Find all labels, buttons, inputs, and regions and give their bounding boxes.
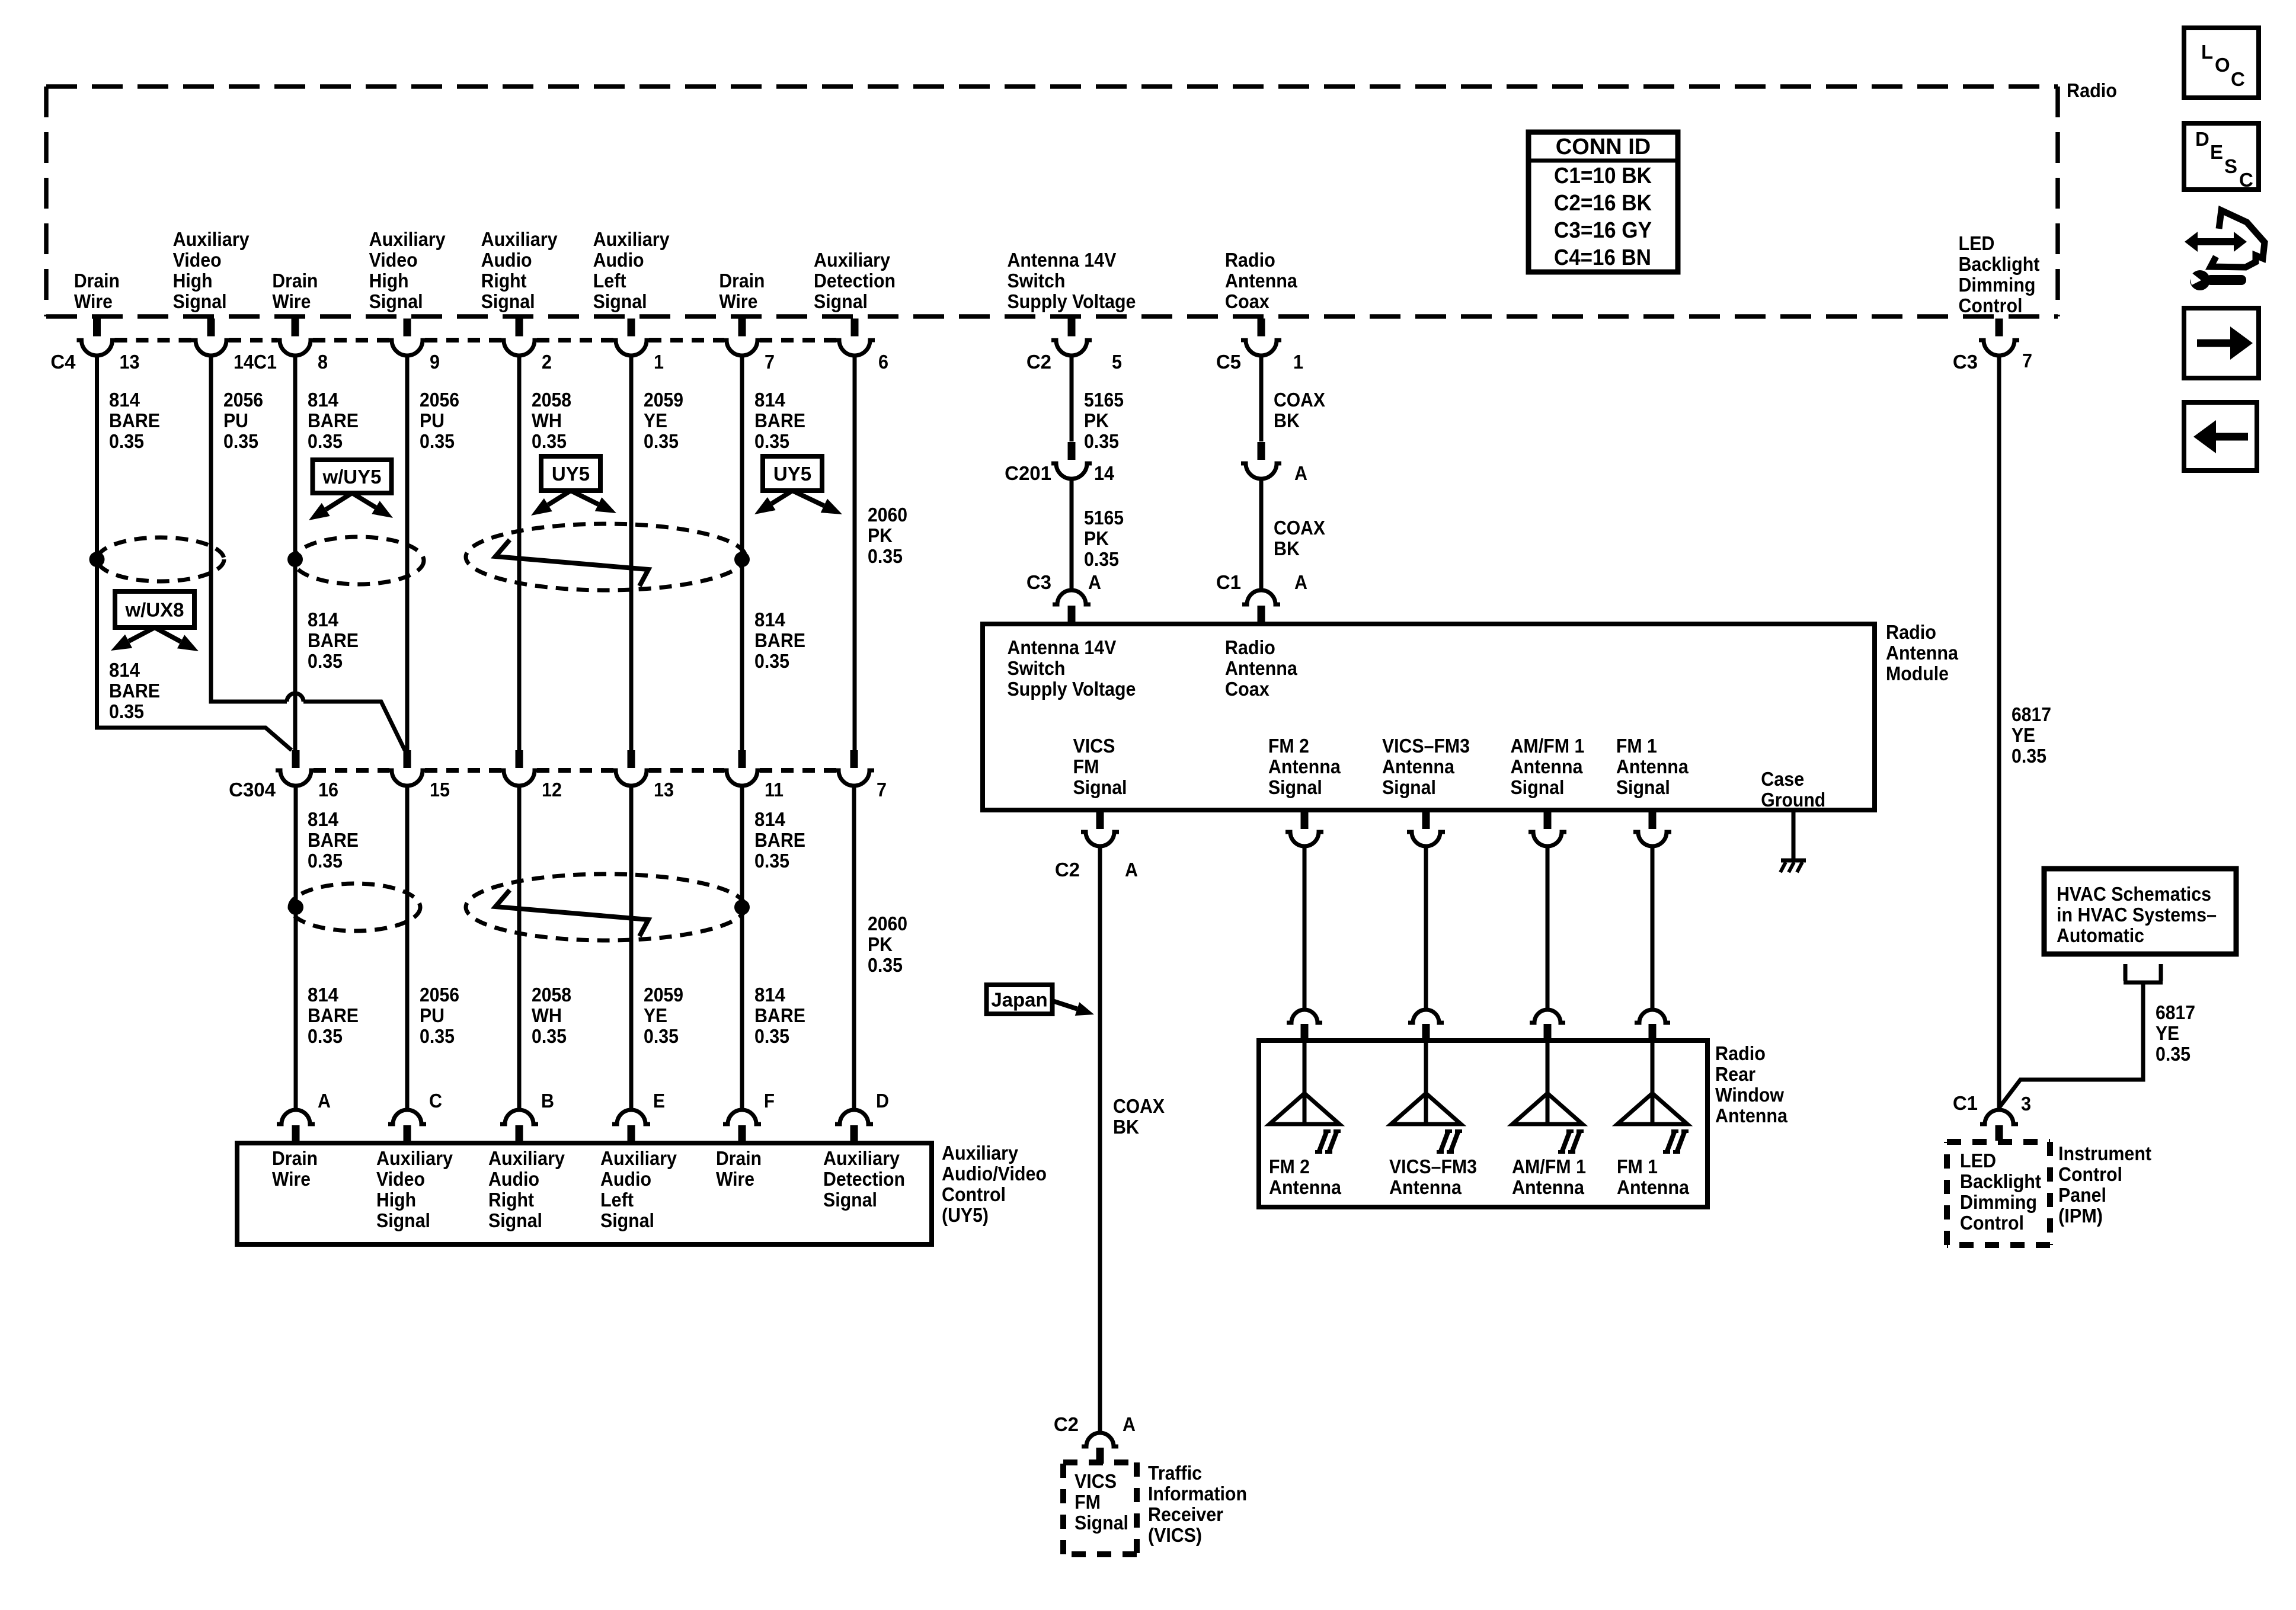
svg-text:VICS: VICS <box>1073 735 1115 757</box>
svg-text:YE: YE <box>2012 724 2035 746</box>
svg-text:Radio: Radio <box>1225 636 1275 658</box>
component name: Radio Antenna Module <box>1886 621 1959 684</box>
svg-text:Antenna: Antenna <box>1510 756 1583 777</box>
svg-text:F: F <box>764 1090 775 1112</box>
svg-text:Auxiliary: Auxiliary <box>814 249 891 271</box>
component name: Radio Rear Window Antenna <box>1715 1042 1788 1126</box>
svg-text:Signal: Signal <box>600 1209 654 1231</box>
svg-text:D: D <box>2195 128 2209 150</box>
svg-text:1: 1 <box>1293 351 1303 373</box>
svg-text:Auxiliary: Auxiliary <box>173 228 250 250</box>
sidebar DESC icon box <box>2184 123 2259 191</box>
svg-text:FM 1: FM 1 <box>1617 1156 1658 1177</box>
svg-text:C1: C1 <box>1953 1092 1978 1114</box>
pin 5 name: Antenna 14V Switch Supply Voltage <box>1007 249 1136 312</box>
svg-text:814: 814 <box>308 984 339 1006</box>
svg-text:814: 814 <box>754 609 786 630</box>
connector C304 cavity 13 <box>611 750 651 786</box>
svg-text:0.35: 0.35 <box>644 430 679 452</box>
svg-text:C3=16 GY: C3=16 GY <box>1554 218 1652 243</box>
svg-text:BK: BK <box>1274 409 1300 431</box>
svg-text:O: O <box>2215 54 2230 76</box>
Aux box pin D name <box>823 1147 905 1211</box>
svg-text:Drain: Drain <box>719 270 765 292</box>
case ground wire <box>1792 812 1796 860</box>
svg-text:13: 13 <box>654 779 674 801</box>
svg-text:2056: 2056 <box>420 984 459 1006</box>
component name: Auxiliary Audio/Video Control (UY5) <box>942 1142 1047 1226</box>
svg-text:0.35: 0.35 <box>532 430 567 452</box>
inline connector C201 pin 14 <box>1051 442 1092 479</box>
connector cavity pin F (Auxiliary A/V Control) <box>723 1110 761 1142</box>
wire value label 814 BARE 0.35 (C304 16 upper) <box>308 808 359 872</box>
wire 6817 YE (radio C3-7 to IPM C1-3) <box>1997 356 2001 1109</box>
svg-text:6817: 6817 <box>2012 703 2051 725</box>
pin 7 name: LED Backlight Dimming Control <box>1958 232 2039 316</box>
svg-text:Backlight: Backlight <box>1958 253 2039 275</box>
Radio component dashed outline box <box>46 87 2058 316</box>
svg-text:Control: Control <box>1958 295 2022 316</box>
wire 814 BARE drain (pin 8 to C304 pin 16) <box>293 356 298 750</box>
antenna break marks (AM/FM 1) <box>1558 1131 1584 1153</box>
connector row dotted line (C4/C1) <box>115 338 837 343</box>
svg-text:Right: Right <box>481 270 527 292</box>
svg-text:BARE: BARE <box>754 829 805 851</box>
junction dot (C304 11 drain) <box>734 900 750 915</box>
svg-text:0.35: 0.35 <box>754 430 789 452</box>
wire 2058 WH (pin 2 to C304 pin 12) <box>517 356 522 750</box>
rear window antenna entry connector <box>1635 1010 1670 1041</box>
twisted-pair ellipse (pins 13/14) <box>97 537 224 581</box>
connector cavity pin 13 <box>77 319 117 356</box>
svg-text:Audio: Audio <box>600 1168 651 1190</box>
svg-text:0.35: 0.35 <box>109 700 144 722</box>
pin 6 name: Auxiliary Detection Signal <box>814 249 896 312</box>
svg-text:Switch: Switch <box>1007 657 1065 679</box>
svg-text:Automatic: Automatic <box>2057 924 2144 946</box>
svg-text:5165: 5165 <box>1084 507 1124 529</box>
wire 2060 PK (pin 6 to C304 pin 7) <box>853 356 857 750</box>
antenna coax wire x=2406 <box>1424 846 1428 1010</box>
module pin name: AM/FM 1 Antenna Signal <box>1510 735 1584 798</box>
svg-text:S: S <box>2224 155 2237 177</box>
svg-text:814: 814 <box>754 984 786 1006</box>
svg-text:Auxiliary: Auxiliary <box>488 1147 565 1169</box>
module pin name: Case Ground <box>1761 768 1825 811</box>
svg-text:Window: Window <box>1715 1084 1784 1106</box>
antenna label FM 1 <box>1617 1156 1690 1198</box>
component name: Traffic Information Receiver (VICS) <box>1148 1462 1247 1546</box>
pin 8 name: Drain Wire <box>272 270 318 312</box>
svg-text:0.35: 0.35 <box>754 650 789 672</box>
svg-text:Supply Voltage: Supply Voltage <box>1007 678 1136 700</box>
svg-text:814: 814 <box>109 389 140 411</box>
svg-text:A: A <box>318 1090 331 1112</box>
wire 2059 YE (pin 1 to C304 pin 13) <box>629 356 634 750</box>
svg-text:Antenna: Antenna <box>1225 657 1298 679</box>
svg-text:12: 12 <box>542 779 562 801</box>
Auxiliary Audio/Video Control (UY5) component box <box>237 1143 932 1244</box>
svg-text:5: 5 <box>1112 351 1122 373</box>
wire value label COAX BK (lower) <box>1274 517 1325 559</box>
svg-text:Radio: Radio <box>1225 249 1275 271</box>
svg-text:BK: BK <box>1274 537 1300 559</box>
svg-text:2056: 2056 <box>223 389 263 411</box>
pin 2 name: Auxiliary Audio Right Signal <box>481 228 558 312</box>
svg-text:2060: 2060 <box>868 504 907 526</box>
chassis ground symbol <box>1780 860 1806 872</box>
connector C304 cavity 12 <box>499 750 539 786</box>
wire value label 2056 PU 0.35 (pin 14) <box>223 389 263 452</box>
connector C304 dotted line <box>314 768 836 773</box>
svg-text:11: 11 <box>765 779 784 801</box>
svg-text:7: 7 <box>877 779 887 801</box>
connector cavity pin B (Auxiliary A/V Control) <box>500 1110 538 1142</box>
svg-text:AM/FM 1: AM/FM 1 <box>1510 735 1584 757</box>
module output connector (AM/FM 1) <box>1528 812 1566 846</box>
svg-text:Signal: Signal <box>1510 776 1564 798</box>
antenna break marks (VICS–FM3) <box>1437 1131 1462 1153</box>
svg-text:Control: Control <box>942 1183 1006 1205</box>
svg-text:C2=16 BK: C2=16 BK <box>1554 191 1652 216</box>
svg-text:2: 2 <box>542 351 552 373</box>
svg-text:0.35: 0.35 <box>644 1025 679 1047</box>
connector C304 cavity 11 <box>722 750 762 786</box>
Aux box pin C name <box>376 1147 453 1231</box>
svg-text:C3: C3 <box>1953 351 1978 373</box>
svg-text:C3: C3 <box>1027 571 1051 593</box>
svg-text:Detection: Detection <box>823 1168 905 1190</box>
svg-text:Backlight: Backlight <box>1960 1170 2041 1192</box>
svg-text:BARE: BARE <box>109 680 160 702</box>
module pin name: FM 2 Antenna Signal <box>1268 735 1341 798</box>
twisted-pair ellipse (C304 16/15) <box>290 884 420 931</box>
wire value label 814 BARE 0.35 (C304 11 upper) <box>754 808 805 872</box>
option label box UY5 (drain/detection) <box>763 456 822 491</box>
svg-text:814: 814 <box>109 659 140 681</box>
Japan pointer arrow <box>1053 1001 1094 1016</box>
svg-text:Signal: Signal <box>814 290 868 312</box>
svg-text:Antenna: Antenna <box>1268 756 1341 777</box>
svg-text:1: 1 <box>654 351 664 373</box>
svg-text:7: 7 <box>765 351 775 373</box>
svg-text:BARE: BARE <box>308 629 359 651</box>
module output connector (VICS-FM3) <box>1407 812 1445 846</box>
svg-text:Panel: Panel <box>2058 1184 2106 1206</box>
svg-text:Antenna: Antenna <box>1512 1176 1585 1198</box>
svg-text:Audio/Video: Audio/Video <box>942 1163 1047 1185</box>
option label box w/UX8 <box>115 591 194 628</box>
svg-text:0.35: 0.35 <box>1084 430 1119 452</box>
svg-text:C2: C2 <box>1055 859 1080 881</box>
connector cavity pin 1 (C5) <box>1241 319 1281 356</box>
svg-text:0.35: 0.35 <box>420 430 455 452</box>
Radio Rear Window Antenna component box <box>1259 1041 1707 1207</box>
svg-text:Wire: Wire <box>272 1168 311 1190</box>
wire C304 pin 7 to Auxiliary A/V Control <box>852 786 856 1109</box>
svg-text:C1: C1 <box>1216 571 1241 593</box>
connector cavity pin 6 <box>834 319 875 356</box>
connector cavity pin 9 <box>387 319 427 356</box>
svg-text:14: 14 <box>1094 462 1115 484</box>
svg-text:814: 814 <box>754 389 786 411</box>
svg-text:(IPM): (IPM) <box>2058 1205 2103 1227</box>
svg-text:2056: 2056 <box>420 389 459 411</box>
wire value label 2056 PU 0.35 (to pin C) <box>420 984 459 1047</box>
svg-text:814: 814 <box>754 808 786 830</box>
svg-text:FM 1: FM 1 <box>1616 735 1657 757</box>
wire value label 2058 WH 0.35 (pin 2) <box>532 389 571 452</box>
Aux box pin B name <box>488 1147 565 1231</box>
svg-text:C4=16 BN: C4=16 BN <box>1554 245 1651 270</box>
svg-text:YE: YE <box>2156 1022 2179 1044</box>
svg-text:Traffic: Traffic <box>1148 1462 1202 1484</box>
svg-text:Auxiliary: Auxiliary <box>942 1142 1019 1164</box>
svg-text:UY5: UY5 <box>773 463 811 485</box>
svg-text:0.35: 0.35 <box>754 1025 789 1047</box>
svg-text:Signal: Signal <box>376 1209 430 1231</box>
antenna element (FM 2) <box>1269 1043 1339 1124</box>
svg-text:VICS–FM3: VICS–FM3 <box>1389 1156 1477 1177</box>
Aux box pin E name <box>600 1147 677 1231</box>
svg-text:BARE: BARE <box>308 409 359 431</box>
svg-text:w/UY5: w/UY5 <box>322 466 381 488</box>
connector cavity pin 5 (C2) <box>1051 319 1092 356</box>
svg-text:Video: Video <box>376 1168 425 1190</box>
svg-text:Antenna: Antenna <box>1225 270 1298 292</box>
wire value label COAX BK (upper) <box>1274 389 1325 431</box>
svg-text:PK: PK <box>868 933 893 955</box>
wire value label 5165 PK 0.35 (upper) <box>1084 389 1124 452</box>
svg-text:Module: Module <box>1886 662 1949 684</box>
svg-text:814: 814 <box>308 389 339 411</box>
wire value label 814 BARE 0.35 (pin 8) <box>308 389 359 452</box>
inline coax connector pin A <box>1241 442 1281 479</box>
svg-text:Auxiliary: Auxiliary <box>481 228 558 250</box>
option arrow UY5 left <box>531 491 571 516</box>
wire 2056 PU (pin 9 to C304 pin 15) <box>405 356 410 750</box>
svg-text:Control: Control <box>2058 1163 2122 1185</box>
module pin name: VICS FM Signal <box>1073 735 1127 798</box>
svg-text:7: 7 <box>2022 350 2032 372</box>
svg-text:Video: Video <box>173 249 222 271</box>
wire value label 814 BARE 0.35 (to pin A) <box>308 984 359 1047</box>
wire C304 pin 11 to Auxiliary A/V Control <box>740 786 744 1109</box>
svg-text:2060: 2060 <box>868 913 907 934</box>
pin 1 name: Auxiliary Audio Left Signal <box>593 228 670 312</box>
wire value label 814 BARE 0.35 (pin 7) <box>754 389 805 452</box>
module pin name: FM 1 Antenna Signal <box>1616 735 1689 798</box>
off-page connector bracket under HVAC box <box>2124 964 2163 982</box>
Aux box pin F name: Drain Wire <box>716 1147 762 1190</box>
antenna label AM/FM 1 <box>1512 1156 1586 1198</box>
antenna break marks (FM 2) <box>1315 1131 1341 1153</box>
svg-text:LED: LED <box>1960 1150 1996 1172</box>
svg-text:Information: Information <box>1148 1483 1247 1505</box>
svg-text:0.35: 0.35 <box>308 430 343 452</box>
svg-text:COAX: COAX <box>1274 517 1325 539</box>
svg-text:C5: C5 <box>1216 351 1241 373</box>
wire 814 BARE drain (pin 13 to C304 pin 16) <box>97 356 292 750</box>
svg-text:2059: 2059 <box>644 389 683 411</box>
CONN ID connector table <box>1528 132 1678 272</box>
svg-text:BARE: BARE <box>754 629 805 651</box>
svg-text:Radio: Radio <box>2067 79 2117 101</box>
svg-text:Left: Left <box>593 270 626 292</box>
svg-text:PK: PK <box>1084 527 1109 549</box>
svg-text:CONN ID: CONN ID <box>1556 135 1651 159</box>
svg-text:BARE: BARE <box>308 1004 359 1026</box>
svg-text:w/UX8: w/UX8 <box>124 599 184 621</box>
svg-text:C201: C201 <box>1005 462 1051 484</box>
svg-text:Signal: Signal <box>481 290 535 312</box>
pin 14 name: Auxiliary Video High Signal <box>173 228 250 312</box>
component name: Instrument Control Panel (IPM) <box>2058 1142 2151 1227</box>
connector cavity pin A (Auxiliary A/V Control) <box>277 1110 315 1142</box>
svg-text:Antenna: Antenna <box>1389 1176 1462 1198</box>
antenna element (FM 1) <box>1617 1043 1687 1124</box>
svg-text:C2: C2 <box>1027 351 1051 373</box>
svg-text:B: B <box>541 1090 554 1112</box>
wire 2056 PU (pin 14), vertical + horizontal <box>211 356 287 702</box>
region label box Japan <box>987 985 1053 1014</box>
svg-text:13: 13 <box>120 351 140 373</box>
svg-text:PU: PU <box>420 1004 445 1026</box>
svg-text:BARE: BARE <box>754 1004 805 1026</box>
module pin name: Radio Antenna Coax <box>1225 636 1298 700</box>
svg-text:0.35: 0.35 <box>308 1025 343 1047</box>
junction dot (pin 13 drain) <box>89 552 105 567</box>
connector cavity pin 7 (C3) <box>1979 319 2019 356</box>
svg-text:2059: 2059 <box>644 984 683 1006</box>
svg-text:Instrument: Instrument <box>2058 1142 2151 1164</box>
svg-text:Auxiliary: Auxiliary <box>593 228 670 250</box>
svg-text:Radio: Radio <box>1715 1042 1766 1064</box>
svg-text:Signal: Signal <box>1382 776 1436 798</box>
connector C304 cavity 7 <box>834 750 874 786</box>
wire value label 6817 YE 0.35 (HVAC) <box>2156 1001 2195 1065</box>
svg-text:Signal: Signal <box>1616 776 1670 798</box>
svg-text:FM: FM <box>1073 756 1099 777</box>
svg-text:Case: Case <box>1761 768 1804 790</box>
svg-text:BARE: BARE <box>308 829 359 851</box>
svg-text:15: 15 <box>430 779 450 801</box>
connector cavity pin 2 <box>499 319 539 356</box>
wire 814 BARE drain (pin 7 to C304 pin 11) <box>740 356 744 750</box>
svg-text:WH: WH <box>532 409 562 431</box>
svg-text:VICS: VICS <box>1075 1470 1117 1492</box>
connector cavity pin 8 <box>275 319 315 356</box>
svg-text:A: A <box>1294 571 1307 593</box>
svg-text:Auxiliary: Auxiliary <box>376 1147 453 1169</box>
svg-text:LED: LED <box>1958 232 1994 254</box>
svg-text:E: E <box>653 1090 665 1112</box>
svg-text:814: 814 <box>308 808 339 830</box>
svg-text:D: D <box>876 1090 889 1112</box>
svg-text:Supply Voltage: Supply Voltage <box>1007 290 1136 312</box>
junction dot (pin 7 drain) <box>734 552 750 567</box>
option arrow UY5 right <box>792 491 842 514</box>
connector cavity pin D (Auxiliary A/V Control) <box>835 1110 873 1142</box>
module pin name: VICS-FM3 Antenna Signal <box>1382 735 1470 798</box>
option arrow UY5 left <box>754 491 792 514</box>
wire value label 2058 WH 0.35 (to pin B) <box>532 984 571 1047</box>
svg-text:0.35: 0.35 <box>532 1025 567 1047</box>
svg-text:Japan: Japan <box>991 989 1047 1011</box>
coax wire (radio C5-1 to inline connector) <box>1259 356 1264 441</box>
svg-text:Audio: Audio <box>481 249 532 271</box>
antenna coax wire x=2611 <box>1546 846 1550 1010</box>
svg-text:Signal: Signal <box>173 290 227 312</box>
svg-text:8: 8 <box>318 351 328 373</box>
option arrow UY5 right <box>571 491 616 513</box>
twisted-pair ellipse (C304 12/13/11) <box>466 874 746 940</box>
svg-text:VICS–FM3: VICS–FM3 <box>1382 735 1470 757</box>
module pin name: Antenna 14V Switch Supply Voltage <box>1007 636 1136 700</box>
svg-text:Drain: Drain <box>74 270 120 292</box>
svg-text:Signal: Signal <box>369 290 423 312</box>
svg-text:16: 16 <box>318 779 338 801</box>
svg-text:E: E <box>2210 141 2223 163</box>
svg-text:A: A <box>1125 859 1138 881</box>
svg-text:3: 3 <box>2021 1093 2031 1115</box>
svg-text:C2: C2 <box>1054 1413 1079 1435</box>
svg-text:WH: WH <box>532 1004 562 1026</box>
wire C304 pin 12 to Auxiliary A/V Control <box>517 786 522 1109</box>
connector cavity pin 7 <box>722 319 762 356</box>
wire hop over pin-8 wire <box>287 693 303 702</box>
svg-text:0.35: 0.35 <box>868 545 903 567</box>
module output connector (FM 2) <box>1285 812 1323 846</box>
svg-text:C: C <box>2231 68 2245 90</box>
svg-text:BK: BK <box>1113 1116 1139 1138</box>
svg-text:Drain: Drain <box>716 1147 762 1169</box>
wire value label 2056 PU 0.35 (pin 9) <box>420 389 459 452</box>
svg-text:Wire: Wire <box>719 290 757 312</box>
svg-text:COAX: COAX <box>1113 1095 1165 1117</box>
svg-text:High: High <box>173 270 213 292</box>
svg-text:Signal: Signal <box>488 1209 542 1231</box>
svg-text:Antenna: Antenna <box>1382 756 1455 777</box>
svg-text:Left: Left <box>600 1189 634 1211</box>
LED Backlight Dimming Control dashed component box <box>1947 1142 2050 1245</box>
twisted-pair ellipse (pins 8/9) <box>293 537 424 584</box>
svg-text:0.35: 0.35 <box>223 430 258 452</box>
wire value label 2059 YE 0.35 (to pin E) <box>644 984 683 1047</box>
coax wire (to antenna module C1) <box>1259 479 1264 590</box>
antenna coax wire x=2788 <box>1651 846 1655 1010</box>
svg-text:0.35: 0.35 <box>1084 548 1119 570</box>
svg-text:AM/FM 1: AM/FM 1 <box>1512 1156 1586 1177</box>
svg-text:Audio: Audio <box>593 249 644 271</box>
junction dot (pin 8 drain) <box>287 552 303 567</box>
wire 6817 YE (HVAC to IPM C1-3) <box>2000 982 2143 1107</box>
option arrow w/UX8 right <box>155 628 199 651</box>
svg-text:Drain: Drain <box>272 1147 318 1169</box>
wire value label 814 BARE 0.35 (lower, pin 13 branch) <box>109 659 160 722</box>
svg-text:2058: 2058 <box>532 389 571 411</box>
svg-text:C1=10 BK: C1=10 BK <box>1554 164 1652 188</box>
svg-text:Antenna: Antenna <box>1715 1105 1788 1126</box>
connector cavity pin 14 <box>191 319 231 356</box>
wire value label 5165 PK 0.35 (lower) <box>1084 507 1124 570</box>
pin 1 name: Radio Antenna Coax <box>1225 249 1298 312</box>
sidebar back arrow icon box <box>2184 402 2257 470</box>
svg-text:(VICS): (VICS) <box>1148 1524 1202 1546</box>
Radio Antenna Module component box <box>983 624 1875 810</box>
svg-text:0.35: 0.35 <box>420 1025 455 1047</box>
pin 7 name: Drain Wire <box>719 270 765 312</box>
